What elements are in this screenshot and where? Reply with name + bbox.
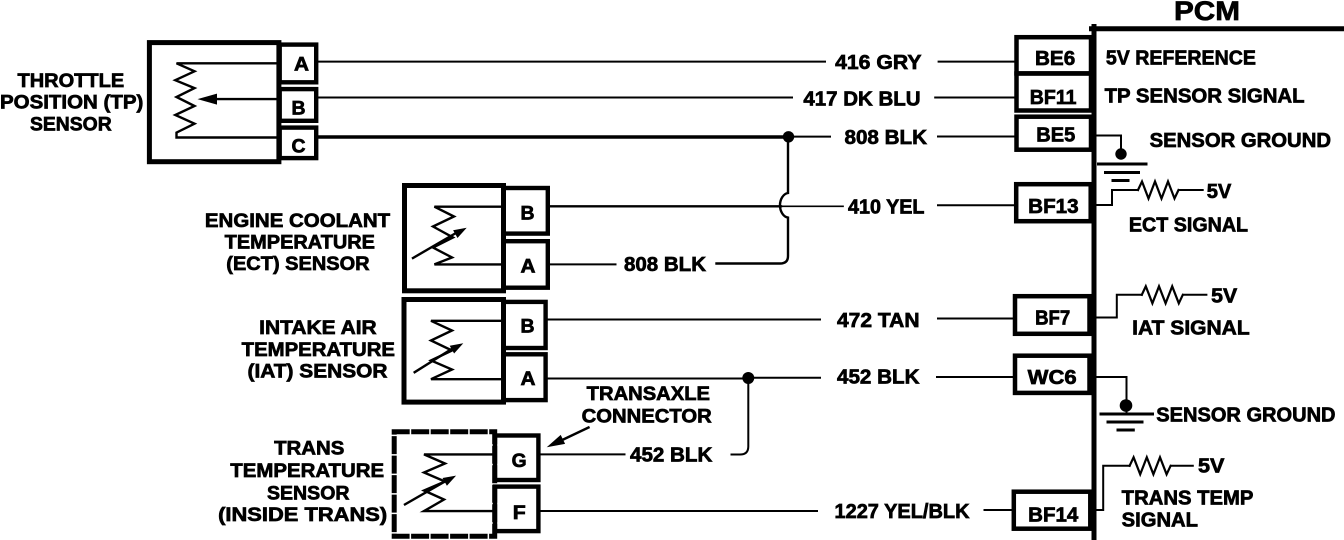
svg-text:BF13: BF13 <box>1028 196 1078 218</box>
wire 472 TAN right <box>938 318 1014 320</box>
trans pin G box <box>495 436 538 481</box>
PCM top boundary line <box>1092 26 1344 31</box>
wire 1227 YEL/BLK right <box>985 509 1014 511</box>
svg-text:(IAT) SENSOR: (IAT) SENSOR <box>248 361 388 383</box>
svg-text:POSITION (TP): POSITION (TP) <box>0 92 143 114</box>
svg-text:ECT SIGNAL: ECT SIGNAL <box>1129 215 1248 237</box>
wire 410 YEL right <box>938 204 1016 206</box>
ECT thermistor arrow line <box>413 233 456 258</box>
svg-text:TEMPERATURE: TEMPERATURE <box>242 339 395 361</box>
transaxle connector arrow line <box>557 428 589 443</box>
IAT pin B box <box>504 302 546 348</box>
svg-text:PCM: PCM <box>1174 0 1240 26</box>
svg-text:417 DK BLU: 417 DK BLU <box>803 88 920 110</box>
svg-text:5V: 5V <box>1198 456 1225 478</box>
svg-text:SENSOR: SENSOR <box>267 482 350 504</box>
svg-text:BE5: BE5 <box>1036 125 1075 147</box>
svg-text:472 TAN: 472 TAN <box>837 310 920 332</box>
svg-text:(ECT) SENSOR: (ECT) SENSOR <box>226 253 369 275</box>
connector pin BF7 <box>1015 296 1090 334</box>
IAT sensor outer box <box>404 300 504 403</box>
svg-text:B: B <box>521 317 535 338</box>
svg-text:(INSIDE TRANS): (INSIDE TRANS) <box>218 504 387 526</box>
ECT pin B box <box>503 188 548 234</box>
svg-text:BE6: BE6 <box>1035 48 1075 70</box>
wire 417 DK BLU right <box>935 97 1016 99</box>
wire 410 YEL left <box>550 205 781 207</box>
wire BE5 to ground <box>1094 136 1121 159</box>
svg-text:5V: 5V <box>1207 181 1232 203</box>
wire 452 BLK left <box>548 378 743 380</box>
resistor R-ECT <box>1138 182 1179 199</box>
connector pin BF13 <box>1016 184 1090 221</box>
svg-text:1227 YEL/BLK: 1227 YEL/BLK <box>835 501 971 523</box>
ground symbol (bottom) <box>1101 414 1153 430</box>
IAT thermistor <box>431 321 503 379</box>
svg-text:THROTTLE: THROTTLE <box>18 70 125 92</box>
svg-text:WC6: WC6 <box>1028 367 1077 389</box>
trans thermistor <box>424 454 494 511</box>
svg-text:ENGINE COOLANT: ENGINE COOLANT <box>205 210 390 232</box>
wire 808 BLK right <box>938 136 1016 138</box>
svg-text:B: B <box>521 204 535 225</box>
wire resistor to 5V <box>1184 294 1207 296</box>
wire 452 BLK mid <box>748 377 820 379</box>
TP sensor outer box <box>149 43 279 162</box>
IAT thermistor arrowhead <box>450 343 464 353</box>
wire 417 DK BLU left <box>316 97 792 99</box>
TP pin B box <box>280 89 317 121</box>
svg-text:808 BLK: 808 BLK <box>624 254 707 276</box>
TP pin C box <box>280 128 317 159</box>
svg-text:TEMPERATURE: TEMPERATURE <box>225 232 375 254</box>
wire BF13 to resistor <box>1094 190 1138 205</box>
ECT thermistor <box>433 207 503 265</box>
connector pin BE5 <box>1017 117 1092 150</box>
junction dot 808 BLK <box>783 131 794 142</box>
ground junction dot (top) <box>1115 148 1126 159</box>
connector pin BF14 <box>1014 492 1091 529</box>
svg-text:5V: 5V <box>1211 286 1238 308</box>
wire 416 GRY left <box>316 61 825 63</box>
wire BF7 to resistor <box>1092 295 1142 318</box>
svg-text:410 YEL: 410 YEL <box>848 197 925 219</box>
wire 472 TAN left <box>548 319 820 321</box>
svg-text:5V REFERENCE: 5V REFERENCE <box>1106 48 1256 70</box>
svg-text:SENSOR: SENSOR <box>30 114 112 136</box>
svg-text:TEMPERATURE: TEMPERATURE <box>230 460 384 482</box>
IAT pin A box <box>504 354 546 400</box>
trans thermistor arrowhead <box>443 476 457 486</box>
svg-text:452 BLK: 452 BLK <box>837 367 920 389</box>
TP wiper arrowhead <box>198 94 218 105</box>
trans sensor dashed box <box>394 432 495 536</box>
wire ECT pin A lead <box>550 263 616 265</box>
trans thermistor arrow line <box>405 482 445 505</box>
svg-text:416 GRY: 416 GRY <box>835 52 922 74</box>
TP potentiometer <box>175 63 280 137</box>
svg-text:SENSOR GROUND: SENSOR GROUND <box>1156 405 1335 427</box>
svg-text:TRANS TEMP: TRANS TEMP <box>1122 488 1254 510</box>
trans pin F box <box>495 487 538 531</box>
svg-text:A: A <box>521 257 536 278</box>
wire WC6 to ground <box>1094 377 1127 412</box>
ECT thermistor arrowhead <box>453 228 467 238</box>
wire 452 BLK right <box>937 376 1014 378</box>
wire 808 BLK after junction <box>789 136 831 138</box>
wire BF14 to resistor <box>1094 466 1130 510</box>
PCM left boundary line <box>1092 27 1097 540</box>
resistor R-IAT <box>1142 286 1183 303</box>
ECT pin A box <box>503 241 548 288</box>
svg-text:A: A <box>521 369 536 390</box>
svg-text:452 BLK: 452 BLK <box>630 445 713 467</box>
svg-text:B: B <box>292 99 306 120</box>
connector pin BF11 <box>1017 74 1092 111</box>
IAT thermistor arrow line <box>415 349 452 372</box>
TP pin A box <box>280 45 317 83</box>
svg-text:BF14: BF14 <box>1028 505 1079 527</box>
svg-text:TP SENSOR SIGNAL: TP SENSOR SIGNAL <box>1105 86 1305 108</box>
svg-text:SENSOR GROUND: SENSOR GROUND <box>1150 130 1331 152</box>
svg-text:TRANSAXLE: TRANSAXLE <box>587 383 710 405</box>
wire 452 BLK vertical link <box>732 381 749 455</box>
svg-text:BF11: BF11 <box>1030 87 1077 109</box>
svg-text:CONNECTOR: CONNECTOR <box>582 406 712 428</box>
svg-text:A: A <box>294 55 309 76</box>
ground symbol (top) <box>1099 164 1147 181</box>
ground junction dot (bottom) <box>1120 399 1133 412</box>
resistor R-TRANS <box>1130 457 1171 474</box>
svg-text:F: F <box>513 503 526 524</box>
svg-text:IAT SIGNAL: IAT SIGNAL <box>1132 318 1250 340</box>
svg-text:SIGNAL: SIGNAL <box>1122 510 1198 532</box>
connector pin WC6 <box>1015 356 1090 393</box>
ECT sensor outer box <box>405 186 504 291</box>
svg-text:G: G <box>512 451 527 472</box>
svg-text:C: C <box>292 137 306 158</box>
svg-text:BF7: BF7 <box>1035 308 1070 330</box>
svg-text:808 BLK: 808 BLK <box>845 127 928 149</box>
connector pin BE6 <box>1017 37 1092 73</box>
wire 1227 YEL/BLK left <box>538 510 817 512</box>
transaxle connector arrowhead <box>547 435 565 447</box>
wire resistor to 5V <box>1172 465 1193 467</box>
wire 416 GRY right <box>939 61 1016 63</box>
svg-text:INTAKE AIR: INTAKE AIR <box>259 317 377 339</box>
wire 808 BLK vertical link with hop <box>717 139 789 264</box>
svg-text:TRANS: TRANS <box>274 438 344 460</box>
junction dot 452 BLK <box>742 372 754 384</box>
wire resistor to 5V <box>1180 189 1203 191</box>
TP wiper wire <box>214 98 280 100</box>
wire trans G lead <box>538 453 625 455</box>
wire 808 BLK thick segment <box>316 135 789 138</box>
